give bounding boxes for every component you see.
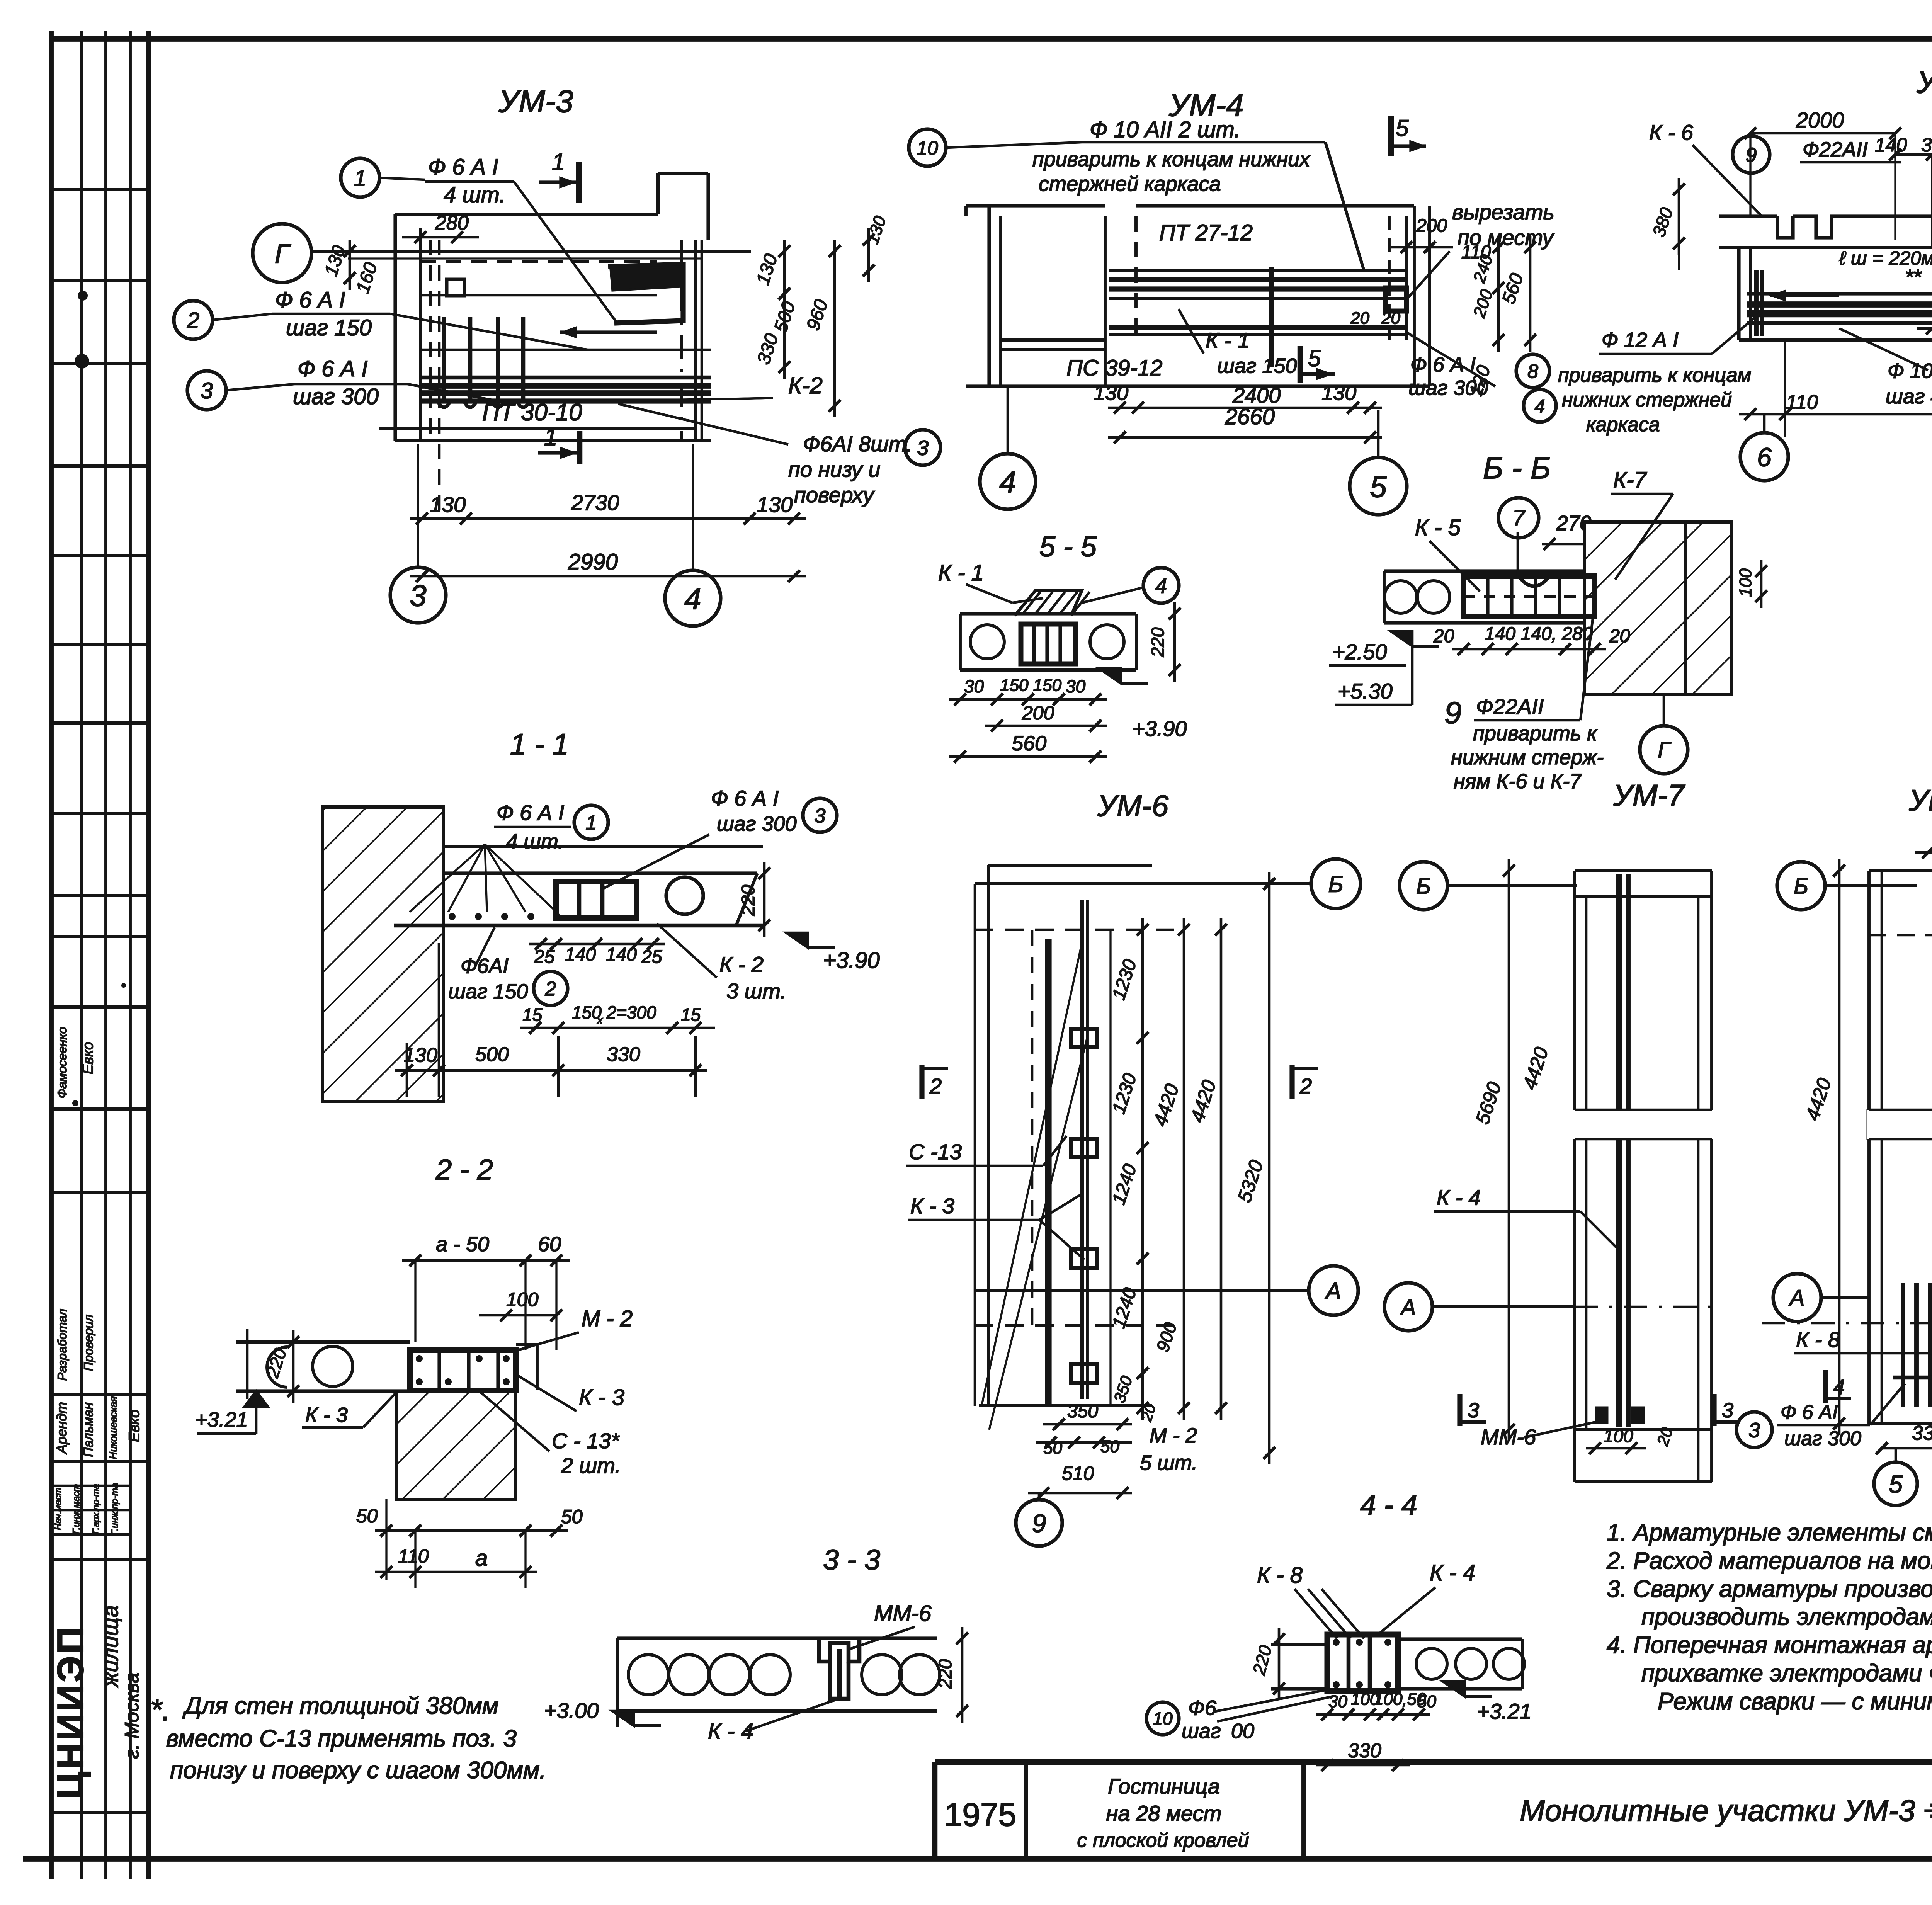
svg-text:шаг 300: шаг 300 (1408, 376, 1488, 400)
svg-text:3: 3 (410, 578, 426, 612)
svg-text:Гостиница: Гостиница (1108, 1774, 1220, 1798)
svg-text:x: x (596, 1014, 603, 1027)
svg-text:Ф22АII: Ф22АII (1476, 694, 1544, 719)
svg-text:130: 130 (1094, 381, 1128, 405)
svg-text:7: 7 (1512, 506, 1526, 531)
svg-text:2 шт.: 2 шт. (561, 1453, 621, 1478)
svg-text:30: 30 (964, 676, 984, 696)
svg-text:приварить к концам нижних: приварить к концам нижних (1032, 148, 1311, 171)
svg-text:ММ-6: ММ-6 (874, 1601, 932, 1626)
svg-text:9: 9 (1444, 696, 1462, 730)
svg-text:2: 2 (187, 308, 199, 333)
svg-text:330: 330 (1348, 1740, 1381, 1762)
svg-text:3. Сварку арматуры производит: 3. Сварку арматуры производить по указан… (1607, 1576, 1932, 1602)
svg-text:К - 3: К - 3 (305, 1403, 348, 1427)
svg-text:3: 3 (815, 805, 826, 827)
svg-text:350: 350 (1067, 1401, 1098, 1422)
svg-text:Ф6АI 8шт.: Ф6АI 8шт. (803, 432, 912, 456)
svg-text:50: 50 (1417, 1692, 1436, 1711)
svg-text:К - 1: К - 1 (1206, 328, 1250, 352)
svg-text:Ф 12 А I: Ф 12 А I (1602, 328, 1679, 352)
svg-text:5 - 5: 5 - 5 (1039, 531, 1097, 563)
svg-text:100: 100 (506, 1289, 539, 1310)
svg-text:4: 4 (999, 465, 1016, 499)
svg-text:140: 140 (606, 944, 637, 965)
svg-text:Ф 6 АI: Ф 6 АI (1781, 1401, 1838, 1424)
svg-text:М - 2: М - 2 (1150, 1424, 1197, 1447)
svg-text:130: 130 (1321, 381, 1356, 405)
svg-text:3: 3 (1722, 1399, 1733, 1422)
svg-text:60: 60 (538, 1233, 561, 1256)
svg-text:280: 280 (435, 212, 469, 234)
svg-text:5 шт.: 5 шт. (1140, 1451, 1197, 1475)
svg-text:А: А (1789, 1286, 1805, 1311)
svg-text:6: 6 (1757, 442, 1772, 472)
svg-text:2990: 2990 (568, 549, 618, 575)
svg-text:Ф6: Ф6 (1188, 1696, 1217, 1720)
svg-text:20: 20 (1433, 626, 1454, 646)
svg-text:шаг 150: шаг 150 (286, 315, 372, 340)
svg-text:a: a (475, 1546, 488, 1571)
svg-text:Разработал: Разработал (55, 1309, 69, 1381)
svg-text:20: 20 (1350, 309, 1369, 328)
svg-text:шаг 150: шаг 150 (448, 980, 528, 1003)
svg-text:560: 560 (1012, 732, 1046, 755)
svg-text:4: 4 (1833, 1376, 1845, 1399)
svg-text:К - 2: К - 2 (719, 952, 764, 976)
svg-text:УМ-8: УМ-8 (1908, 783, 1932, 817)
svg-text:4: 4 (684, 582, 701, 616)
svg-text:**: ** (1905, 265, 1922, 289)
svg-text:50: 50 (356, 1505, 378, 1527)
svg-text:380: 380 (1921, 134, 1932, 156)
svg-text:510: 510 (1062, 1463, 1094, 1484)
svg-text:+3.90: +3.90 (1132, 716, 1187, 741)
svg-text:А: А (1325, 1278, 1341, 1304)
svg-text:4: 4 (1155, 574, 1167, 597)
svg-text:каркаса: каркаса (1586, 413, 1660, 436)
svg-text:Монолитные участки УМ-3 ÷ УМ: Монолитные участки УМ-3 ÷ УМ-8 (1520, 1793, 1932, 1827)
svg-text:25: 25 (534, 947, 555, 967)
svg-text:шаг 300: шаг 300 (1784, 1427, 1861, 1450)
svg-text:с плоской кровлей: с плоской кровлей (1077, 1829, 1249, 1852)
svg-text:220: 220 (935, 1659, 955, 1689)
svg-text:нижних стержней: нижних стержней (1562, 389, 1732, 411)
svg-text:5: 5 (1308, 345, 1321, 371)
svg-text:Ф 6 А I: Ф 6 А I (711, 786, 779, 810)
svg-text:шаг: шаг (1182, 1720, 1221, 1743)
svg-text:100: 100 (1604, 1426, 1633, 1446)
svg-text:8: 8 (1527, 361, 1538, 382)
svg-text:2000: 2000 (1796, 108, 1844, 132)
svg-text:1: 1 (586, 812, 597, 834)
svg-text:3: 3 (917, 436, 929, 459)
svg-text:УМ-3: УМ-3 (498, 84, 573, 119)
svg-text:УМ-7: УМ-7 (1613, 778, 1685, 812)
svg-text:Ф 6 А I: Ф 6 А I (428, 155, 498, 180)
svg-text:+3.00: +3.00 (544, 1698, 599, 1723)
svg-text:4 - 4: 4 - 4 (1360, 1489, 1417, 1521)
svg-text:Г.арх.пр-та: Г.арх.пр-та (91, 1484, 101, 1534)
svg-text:К - 1: К - 1 (938, 560, 984, 585)
svg-text:130: 130 (757, 492, 793, 517)
svg-text:К-7: К-7 (1613, 468, 1647, 493)
svg-text:1: 1 (544, 424, 557, 451)
svg-text:на 28 мест: на 28 мест (1106, 1801, 1222, 1825)
svg-text:200: 200 (1022, 702, 1054, 724)
svg-text:Ф 10 АII 2 шт.: Ф 10 АII 2 шт. (1090, 117, 1240, 142)
svg-text:шаг 150: шаг 150 (1217, 354, 1297, 378)
svg-text:прихватке электродами Ф 4.: прихватке электродами Ф 4. (1641, 1660, 1932, 1687)
svg-text:10: 10 (1153, 1709, 1173, 1729)
svg-text:1. Арматурные элементы см. р: 1. Арматурные элементы см. раздел 10.7 . (1607, 1519, 1932, 1546)
svg-text:вместо С-13 применять поз. 3: вместо С-13 применять поз. 3 (166, 1725, 517, 1752)
svg-text:50: 50 (1043, 1439, 1062, 1458)
svg-text:1: 1 (552, 149, 565, 175)
svg-text:ПС 39-12: ПС 39-12 (1066, 355, 1162, 381)
svg-text:140: 140 (565, 944, 596, 965)
svg-text:К - 3: К - 3 (910, 1194, 954, 1218)
svg-text:50: 50 (561, 1506, 583, 1527)
svg-text:50: 50 (1100, 1437, 1119, 1456)
svg-text:Б: Б (1416, 874, 1431, 899)
svg-text:Евко: Евко (126, 1410, 143, 1442)
svg-text:Ф 6 А I: Ф 6 А I (497, 800, 564, 825)
svg-text:УМ-6: УМ-6 (1097, 789, 1169, 823)
svg-text:+3.21: +3.21 (1477, 1699, 1532, 1723)
svg-text:ПТ 27-12: ПТ 27-12 (1159, 220, 1253, 245)
svg-text:Ф 6 А I: Ф 6 А I (298, 356, 368, 381)
svg-text:20: 20 (1381, 309, 1400, 328)
svg-text:Ф6АI: Ф6АI (461, 954, 509, 978)
svg-text:Ф 6 А I: Ф 6 А I (1410, 353, 1476, 376)
svg-text:+3.90: +3.90 (823, 948, 880, 973)
svg-text:Ф 6 А I: Ф 6 А I (275, 287, 345, 313)
svg-text:К-2: К-2 (788, 372, 823, 398)
svg-text:a - 50: a - 50 (436, 1233, 489, 1256)
svg-text:Пальман: Пальман (81, 1402, 96, 1457)
svg-text:шаг 300: шаг 300 (293, 384, 379, 409)
svg-text:+3.21: +3.21 (195, 1408, 248, 1431)
svg-text:3: 3 (1748, 1419, 1760, 1442)
svg-text:15: 15 (522, 1005, 543, 1025)
svg-text:3 шт.: 3 шт. (726, 979, 786, 1003)
svg-text:3 - 3: 3 - 3 (823, 1544, 880, 1576)
svg-text:ЦНИИЭП: ЦНИИЭП (50, 1625, 91, 1799)
svg-text:Для стен толщиной 380мм: Для стен толщиной 380мм (182, 1692, 498, 1719)
svg-text:К - 4: К - 4 (1437, 1185, 1481, 1209)
svg-text:2400: 2400 (1232, 383, 1281, 407)
svg-text:К - 8: К - 8 (1257, 1563, 1303, 1588)
svg-text:Арендт: Арендт (54, 1402, 70, 1454)
svg-text:Никошевская: Никошевская (107, 1396, 119, 1459)
svg-text:4: 4 (1535, 396, 1545, 417)
svg-text:*.: *. (150, 1692, 170, 1727)
svg-text:15: 15 (681, 1005, 701, 1025)
svg-text:330: 330 (607, 1043, 640, 1066)
svg-text:понизу и поверху с шагом 300мм: понизу и поверху с шагом 300мм. (170, 1757, 546, 1784)
svg-text:Б: Б (1794, 874, 1808, 899)
svg-text:+5.30: +5.30 (1338, 679, 1393, 703)
svg-text:вырезать: вырезать (1452, 200, 1554, 224)
svg-text:А: А (1400, 1295, 1416, 1320)
svg-text:стержней каркаса: стержней каркаса (1039, 172, 1221, 196)
svg-text:3: 3 (201, 378, 213, 403)
svg-text:Режим сварки — с минимальн: Режим сварки — с минимальным током. (1658, 1688, 1932, 1715)
svg-text:приварить к: приварить к (1473, 722, 1598, 745)
svg-text:Евко: Евко (80, 1042, 96, 1074)
svg-text:2: 2 (929, 1074, 942, 1098)
svg-text:по низу и: по низу и (788, 457, 880, 481)
svg-text:Г: Г (275, 238, 291, 269)
svg-text:9: 9 (1032, 1509, 1046, 1538)
svg-text:500: 500 (475, 1043, 509, 1066)
svg-text:2730: 2730 (571, 490, 619, 515)
svg-text:2. Расход материалов на моно: 2. Расход материалов на монолитные участ… (1606, 1548, 1932, 1574)
svg-text:К - 6: К - 6 (1649, 120, 1694, 145)
svg-text:Г: Г (1658, 738, 1672, 763)
svg-text:Нач.маст: Нач.маст (53, 1488, 63, 1530)
svg-text:С -13: С -13 (909, 1140, 962, 1164)
svg-text:г. Москва: г. Москва (121, 1672, 143, 1759)
svg-text:220: 220 (738, 885, 759, 916)
svg-text:2 - 2: 2 - 2 (435, 1153, 493, 1186)
svg-text:2: 2 (1299, 1074, 1312, 1098)
svg-text:130: 130 (404, 1044, 437, 1066)
svg-text:Фамосеенко: Фамосеенко (55, 1027, 69, 1098)
svg-text:5: 5 (1396, 115, 1409, 141)
svg-text:+2.50: +2.50 (1332, 640, 1387, 664)
svg-text:поверху: поверху (794, 483, 875, 507)
svg-text:1 - 1: 1 - 1 (510, 728, 569, 761)
svg-text:жилища: жилища (98, 1605, 122, 1688)
svg-text:ням К-6 и К-7: ням К-6 и К-7 (1454, 770, 1582, 793)
svg-text:110: 110 (398, 1545, 429, 1567)
svg-text:4 шт.: 4 шт. (506, 830, 564, 853)
svg-text:К - 3: К - 3 (579, 1385, 624, 1410)
svg-text:150 2=300: 150 2=300 (572, 1002, 656, 1022)
svg-text:К - 4: К - 4 (1430, 1560, 1475, 1585)
svg-text:шаг 400: шаг 400 (1886, 385, 1932, 408)
svg-text:2: 2 (545, 978, 556, 1000)
svg-text:4 шт.: 4 шт. (444, 182, 505, 208)
svg-text:150 150: 150 150 (1000, 676, 1062, 695)
svg-text:2660: 2660 (1225, 404, 1275, 429)
svg-text:30: 30 (1066, 676, 1086, 696)
svg-text:шаг 300: шаг 300 (717, 812, 797, 835)
svg-text:5: 5 (1370, 469, 1387, 503)
svg-text:130: 130 (430, 492, 466, 517)
svg-text:приварить к концам: приварить к концам (1558, 364, 1751, 386)
svg-text:140 140, 280: 140 140, 280 (1485, 624, 1593, 644)
svg-text:1975: 1975 (944, 1796, 1017, 1833)
svg-text:Г.инж.маст: Г.инж.маст (71, 1484, 82, 1534)
svg-text:4. Поперечная монтажная арма: 4. Поперечная монтажная арматура Ф 6АI у… (1607, 1632, 1932, 1658)
svg-text:200: 200 (1416, 216, 1447, 236)
svg-text:330: 330 (1912, 1422, 1932, 1444)
svg-text:25: 25 (641, 947, 662, 967)
svg-text:нижним стерж-: нижним стерж- (1451, 746, 1604, 769)
svg-text:Б - Б: Б - Б (1483, 451, 1551, 485)
svg-text:С - 13*: С - 13* (552, 1429, 620, 1453)
svg-text:100: 100 (1736, 568, 1755, 597)
svg-text:10: 10 (917, 137, 938, 159)
svg-text:00: 00 (1231, 1720, 1254, 1743)
svg-text:К - 5: К - 5 (1415, 515, 1461, 540)
svg-text:3: 3 (1468, 1399, 1479, 1422)
svg-text:УМ-5: УМ-5 (1916, 65, 1932, 100)
svg-text:М - 2: М - 2 (582, 1306, 633, 1331)
svg-text:5: 5 (1889, 1470, 1903, 1498)
svg-text:К - 8: К - 8 (1796, 1327, 1840, 1352)
svg-text:Ф22АII: Ф22АII (1803, 138, 1868, 161)
svg-text:Г.инж.пр-та: Г.инж.пр-та (110, 1483, 120, 1535)
svg-text:30: 30 (1328, 1692, 1347, 1711)
svg-text:Проверил: Проверил (82, 1315, 95, 1371)
svg-text:20: 20 (1609, 626, 1630, 646)
svg-text:220: 220 (1148, 627, 1168, 657)
svg-text:производить электродами типа: производить электродами типа Э 42 hшв = … (1641, 1604, 1932, 1630)
svg-text:1: 1 (354, 166, 366, 191)
svg-text:Б: Б (1328, 871, 1343, 897)
